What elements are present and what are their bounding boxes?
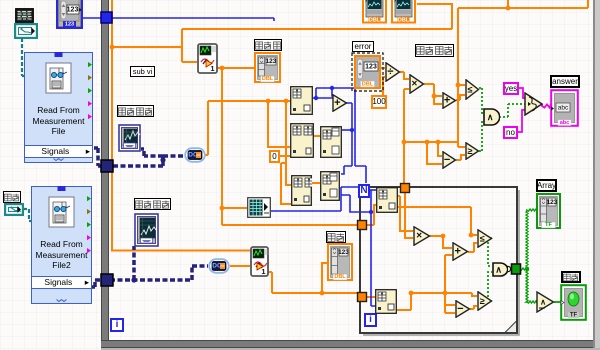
For loop count N: [358, 184, 370, 198]
label 波形: [3, 191, 21, 203]
decimate array node4: [291, 175, 312, 206]
AND gate: [483, 108, 500, 126]
index array node1: [290, 86, 313, 115]
wire: add-i lower input: [445, 255, 452, 293]
wire: 0 const to node2: [280, 155, 290, 157]
svg-text:+: +: [334, 97, 340, 109]
numeric control: [56, 0, 83, 29]
convert from dynamic data 1: [184, 147, 206, 163]
AND gate inner: [492, 262, 508, 277]
wire: node2 to node3: [314, 135, 320, 137]
svg-text:×: ×: [416, 231, 422, 242]
error numeric control with dashed frame: [351, 52, 384, 92]
tunnel: green right for loop: [512, 264, 521, 274]
convert from dynamic data 2: [208, 258, 230, 274]
wire: N to IA-A: [368, 189, 377, 191]
label 目標波形: [134, 198, 171, 210]
wire: branch to subVI1: [112, 4, 452, 62]
wire: no to select: [517, 110, 525, 132]
tunnel: blue on while border: [101, 12, 112, 23]
constant 0: [269, 150, 280, 163]
wire: add out to less-equal: [456, 95, 465, 100]
wire: bool array to Array indicator: [520, 209, 536, 270]
less-or-equal-i: [477, 229, 494, 248]
add-i: [452, 242, 470, 261]
wire: le-i out to AND-i: [488, 238, 492, 266]
For loop iterator i: [364, 313, 377, 327]
wire: select to answer: [542, 104, 551, 108]
spectral measurement icon: [247, 197, 271, 218]
tunnel: orange top of for loop: [401, 184, 410, 193]
svg-text:∧: ∧: [540, 298, 546, 307]
string constant no: [503, 126, 518, 139]
wire: multiply-i out to add-i: [430, 236, 452, 248]
wire: x458 taps: [458, 85, 465, 147]
svg-text:abc: abc: [560, 120, 569, 126]
wire: numeric control long blue: [81, 18, 274, 21]
divide: [385, 62, 402, 82]
wire: path to VI1: [22, 38, 25, 76]
path control 2: [4, 203, 24, 216]
svg-text:≤: ≤: [468, 85, 473, 95]
wire: DDT2 to subVI2: [230, 265, 250, 267]
svg-text:+: +: [444, 95, 450, 107]
svg-text:DBL: DBL: [262, 76, 274, 82]
wire: main orange vertical from top to subVI2: [112, 0, 250, 251]
array subset node2: [290, 123, 314, 158]
svg-text:∧: ∧: [495, 265, 502, 275]
tunnel: dynamic data 2: [101, 274, 113, 286]
array subset node3: [320, 126, 342, 158]
svg-text:×: ×: [411, 79, 417, 90]
wire: AND-i to tunnel: [507, 268, 512, 270]
wire: multiply lower input / tunnel feed: [404, 89, 409, 184]
wire: add out down: [341, 103, 352, 174]
svg-text:DBL: DBL: [398, 17, 410, 23]
Read From Measurement File: [24, 52, 93, 163]
wire: VI2 Signals dynamic: [90, 246, 208, 287]
svg-text:123: 123: [65, 22, 74, 28]
svg-text:123: 123: [338, 249, 349, 256]
svg-text:∧: ∧: [487, 112, 494, 122]
svg-text:−: −: [444, 154, 450, 166]
wire: multiply out to add: [424, 84, 442, 104]
file data icon: [15, 8, 34, 23]
wire: node3 out: [342, 129, 352, 131]
subtract: [442, 151, 458, 169]
svg-text:1: 1: [210, 64, 214, 73]
wire: IA-A out to multiply: [397, 196, 413, 231]
tunnel: orange left1 for loop: [358, 221, 367, 230]
wire: bool array down to AndArrayElements: [526, 269, 537, 303]
label sub vi: [130, 66, 155, 77]
tunnel: dynamic data 1: [101, 160, 113, 172]
label 受測者: [254, 39, 282, 51]
add: [442, 92, 458, 109]
svg-text:DBL: DBL: [334, 274, 346, 280]
svg-text:−: −: [457, 303, 463, 315]
wire: threshold row y=142: [404, 142, 458, 164]
waveform array indicator 1: [362, 0, 387, 24]
wire: path2 to VI2: [23, 209, 32, 221]
greater-or-equal-i: [477, 291, 494, 311]
label 結果: [561, 271, 581, 283]
subVI 1: [197, 43, 218, 74]
wire: top tunnel into loop: [405, 192, 413, 238]
wire: IA-B out distribution: [396, 293, 477, 313]
svg-text:1: 1: [261, 267, 265, 276]
label error: [352, 41, 374, 52]
string indicator answer: [550, 89, 579, 127]
multiply: [409, 74, 426, 94]
wire: AndArrayElements to 結果: [554, 301, 561, 303]
svg-text:DBL: DBL: [362, 81, 374, 87]
And Array Elements: [536, 291, 555, 313]
while loop left border: [101, 0, 109, 348]
label Array: [536, 179, 557, 192]
tunnel: orange left2 for loop: [358, 293, 367, 302]
wire: add-i out to le-i: [468, 243, 477, 252]
svg-text:+: +: [455, 246, 461, 258]
constant 100: [371, 95, 387, 109]
wire: error to divide: [381, 67, 385, 69]
svg-text:123: 123: [266, 58, 277, 65]
wire: subVI2 out to 目標 and tunnel2: [268, 263, 358, 293]
array indicator 目標: [327, 243, 353, 281]
waveform graph 目標頻譜: [118, 124, 141, 152]
wire: tunnel1 to IndexArray A: [366, 205, 377, 225]
svg-text:TF: TF: [545, 222, 552, 228]
waveform graph 目標波形: [134, 213, 159, 247]
wire: branch to node4: [281, 101, 291, 204]
svg-text:123: 123: [547, 199, 558, 206]
svg-text:≤: ≤: [480, 234, 485, 244]
wire: ge out to AND: [479, 121, 484, 151]
subtract-i: [455, 300, 472, 318]
svg-text:123: 123: [67, 7, 79, 14]
wire: ge-i out to AND-i: [488, 272, 492, 301]
boolean indicator 結果: [560, 284, 587, 321]
svg-text:DBL: DBL: [369, 17, 381, 23]
wire: divide to multiply: [400, 72, 409, 79]
svg-text:abc: abc: [558, 105, 569, 112]
window edge right: [593, 0, 600, 350]
wire: subtract-i out to ge-i: [470, 306, 477, 309]
while loop bottom border: [101, 340, 600, 348]
wire: 100 to divide: [383, 77, 385, 97]
select function: [524, 92, 544, 116]
for loop border: [355, 182, 523, 338]
label answer: [550, 75, 580, 88]
wire: spectrum out to N: [271, 187, 358, 211]
wire: VI1 Signals dynamic: [94, 148, 184, 166]
boolean array indicator Array: [536, 193, 561, 229]
path control: [14, 23, 38, 39]
wire: yes to select: [518, 88, 525, 98]
svg-text:≥: ≥: [480, 296, 485, 306]
svg-text:÷: ÷: [387, 66, 393, 78]
svg-text:123: 123: [365, 64, 377, 71]
greater-or-equal: [465, 142, 481, 160]
array control 受測者: [254, 52, 281, 83]
wire: IA-A out long to less-equal: [397, 207, 477, 235]
less-or-equal: [465, 79, 481, 100]
wire: top distribution y=8: [458, 0, 588, 147]
add middle: [332, 94, 349, 112]
wire: node4 to node5: [312, 182, 320, 184]
svg-text:TF: TF: [570, 312, 578, 318]
wire: DDT1 to index node: [205, 101, 290, 155]
wire: branch to node2: [268, 101, 290, 147]
index array B: [375, 289, 397, 314]
Read From Measurement File2: [31, 186, 92, 304]
While loop iterator i: [110, 318, 124, 332]
wire: subtract out to greater-equal: [456, 155, 465, 160]
label 目標: [326, 231, 346, 243]
wire: node5 out down to IA-B: [341, 190, 376, 306]
index array A: [376, 187, 398, 213]
wire: node1 out: [313, 88, 366, 183]
label 目標頻譜: [117, 105, 154, 117]
multiply-i: [413, 226, 432, 246]
wire: subVI1 out to 受測者 and down: [217, 68, 358, 225]
subVI 2: [250, 246, 269, 277]
wire: tunnel2 to IndexArray B: [365, 296, 376, 298]
string constant yes: [503, 82, 519, 95]
waveform array indicator 2: [391, 0, 416, 24]
label 誤差運算: [415, 44, 454, 57]
wire: AND out to select: [499, 104, 525, 117]
index array node5: [320, 171, 340, 201]
svg-text:≥: ≥: [468, 146, 473, 156]
window edge bottom: [101, 348, 600, 350]
wire: le out to AND: [479, 88, 484, 113]
